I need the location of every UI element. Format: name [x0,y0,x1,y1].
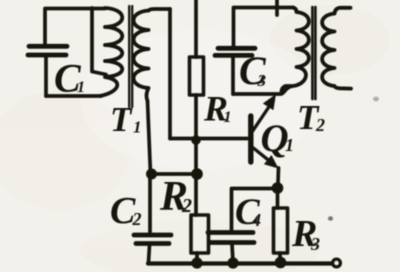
svg-text:2: 2 [315,115,325,135]
svg-text:2: 2 [181,195,192,217]
svg-text:1: 1 [77,79,85,96]
svg-text:4: 4 [251,210,261,230]
svg-text:2: 2 [132,209,142,229]
svg-text:3: 3 [257,71,267,90]
svg-text:1: 1 [224,109,232,126]
svg-text:1: 1 [133,118,142,137]
svg-text:3: 3 [310,234,320,254]
svg-text:T: T [110,100,133,139]
svg-text:1: 1 [285,135,294,155]
